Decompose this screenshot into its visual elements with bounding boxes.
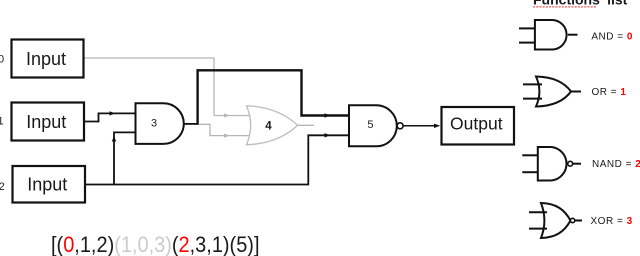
wire gate3 output stub	[184, 123, 199, 125]
wire branch input2 to gate3 lower	[114, 132, 136, 184]
wire input0 to gate4 upper (gray)	[84, 58, 250, 116]
svg-text:4: 4	[265, 121, 272, 133]
red spellcheck squiggle	[533, 6, 597, 8]
svg-text:2: 2	[0, 181, 5, 193]
legend xor output stub	[575, 220, 582, 222]
wire input2 to gate5 lower	[86, 135, 349, 184]
arrow on gray branch wire	[224, 134, 230, 138]
legend xor gate	[541, 203, 571, 238]
nand gate 5	[349, 105, 397, 146]
svg-text:XOR = 3: XOR = 3	[591, 216, 633, 227]
svg-text:Input: Input	[26, 112, 66, 132]
legend or gate output stub	[571, 91, 581, 93]
arrow on input0 wire	[224, 113, 230, 117]
svg-text:OR = 1: OR = 1	[592, 87, 627, 98]
legend xor input stubs	[529, 211, 547, 213]
svg-text:Input: Input	[27, 175, 67, 195]
legend nand output stub	[573, 163, 581, 165]
arrow on gate3-gate5 wire	[325, 113, 331, 117]
legend or gate	[536, 77, 571, 107]
input box 0	[12, 40, 84, 78]
input box 2	[13, 166, 86, 203]
legend nand input stubs	[522, 154, 538, 156]
legend and gate output stub	[568, 34, 578, 36]
arrow on input2 wire	[325, 133, 331, 137]
or gate 4 (inactive gray)	[247, 106, 298, 145]
legend nand bubble	[568, 161, 573, 166]
wire gate5 to output box	[403, 125, 436, 127]
svg-text:[(0,1,2)(1,0,3)(2,3,1)(5)]: [(0,1,2)(1,0,3)(2,3,1)(5)]	[51, 232, 260, 256]
arrow into output box	[434, 124, 440, 128]
wire gate3 to gate4 lower (gray)	[199, 124, 250, 135]
svg-text:1: 1	[0, 116, 4, 128]
output box	[442, 107, 515, 145]
legend nand gate	[538, 147, 567, 181]
svg-text:Input: Input	[26, 49, 66, 69]
svg-text:0: 0	[0, 54, 4, 66]
legend or gate input stubs	[523, 83, 542, 85]
svg-text:Output: Output	[450, 113, 503, 133]
svg-text:NAND = 2: NAND = 2	[592, 159, 640, 170]
gate 5 bubble	[397, 123, 403, 129]
svg-text:AND = 0: AND = 0	[591, 32, 633, 43]
legend xor bubble	[570, 218, 574, 222]
wire gate3 to gate5 upper (up and over)	[198, 70, 349, 125]
and gate 3	[136, 103, 184, 144]
arrow up on branch wire	[112, 136, 116, 142]
wire gate4 output stub (gray)	[297, 124, 314, 126]
wire input1 to gate3 upper	[84, 113, 136, 121]
legend and gate input stubs	[519, 27, 535, 29]
legend and gate	[535, 20, 567, 50]
arrow on input1 wire	[110, 111, 116, 115]
svg-text:3: 3	[151, 118, 157, 130]
svg-text:5: 5	[367, 119, 373, 131]
input box 1	[12, 103, 85, 141]
